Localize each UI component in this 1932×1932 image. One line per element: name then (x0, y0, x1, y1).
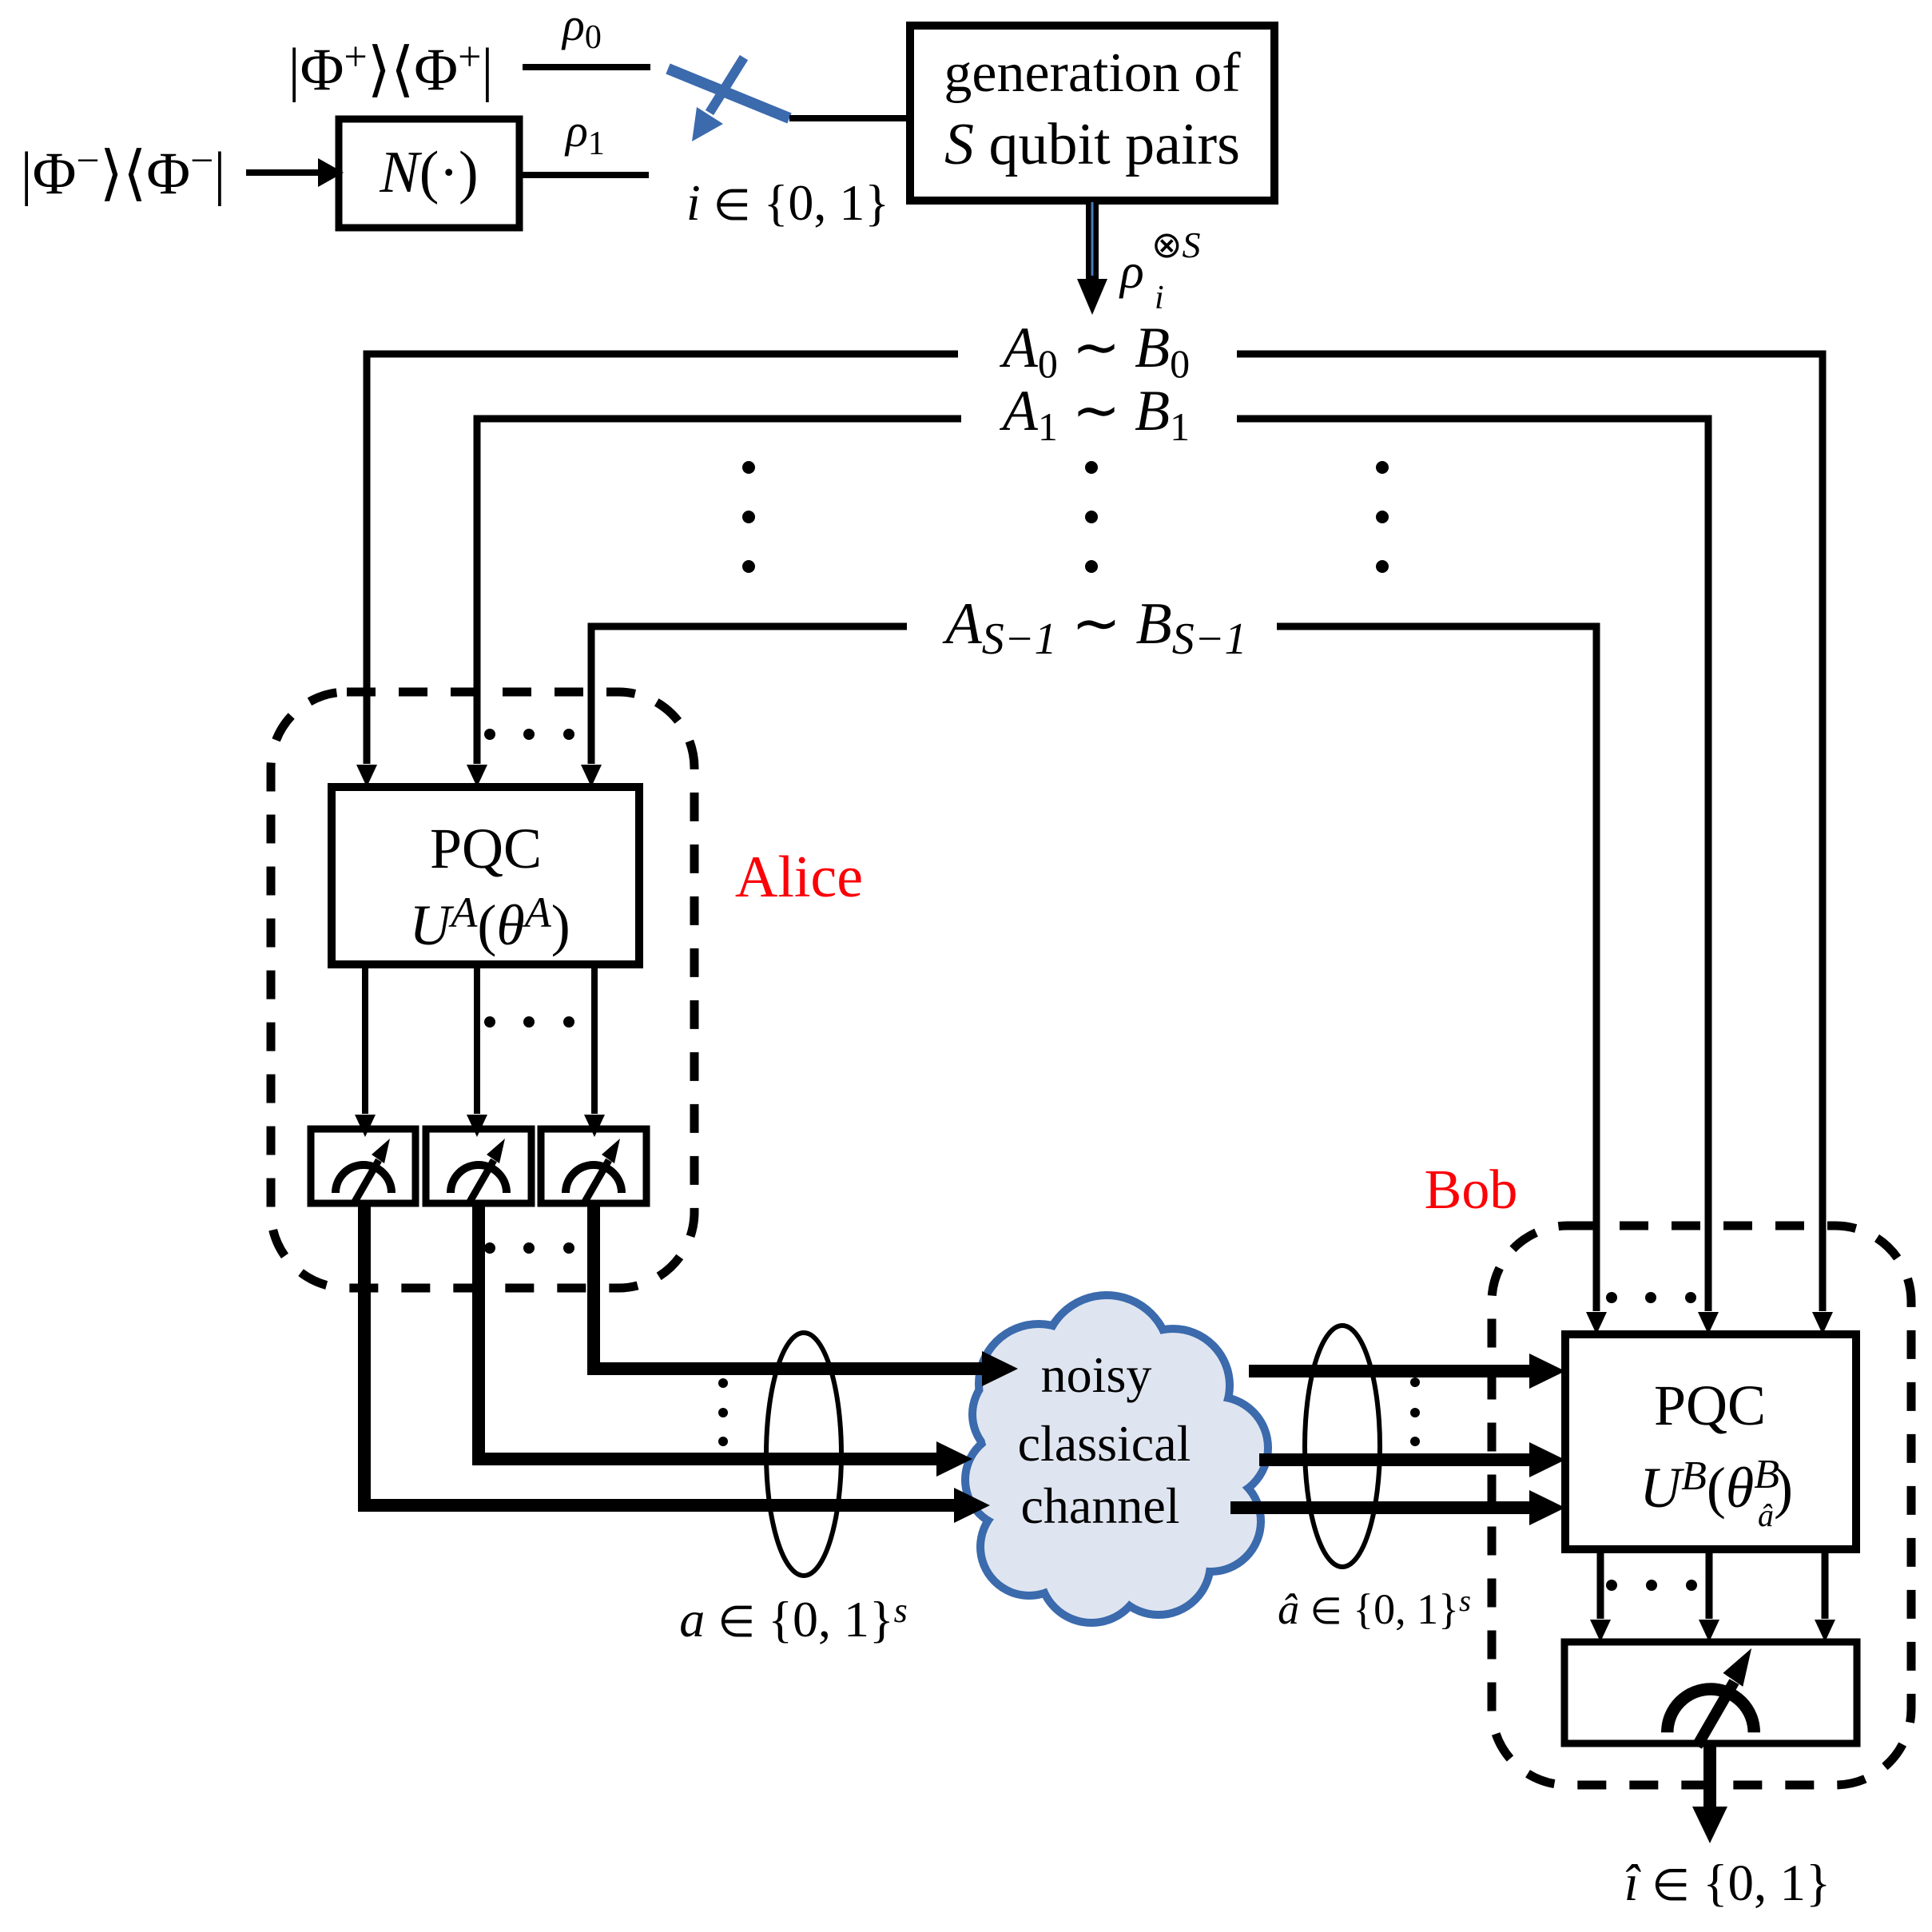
wire A0 right segment (1237, 354, 1823, 1311)
wire AS-1 right segment (1277, 626, 1596, 1311)
node dots between Bob PQC outputs (1606, 1580, 1697, 1591)
wire thick meter2 to cloud (479, 1203, 939, 1459)
wire Bob PQC output 3 (1822, 1549, 1829, 1619)
node dots above Alice PQC (484, 729, 574, 740)
box Bob dashed region (1492, 1226, 1911, 1785)
wire thick cloud to Bob PQC top (1249, 1365, 1532, 1377)
svg-text:noisy: noisy (1041, 1346, 1152, 1403)
node a in {0,1}^s label (679, 1591, 908, 1648)
wire thick output i-hat (1703, 1743, 1716, 1807)
svg-text:a ∈ {0, 1}s: a ∈ {0, 1}s (679, 1591, 908, 1648)
svg-text:i ∈ {0, 1}: i ∈ {0, 1} (686, 174, 889, 231)
svg-text:A1 ∼ B1: A1 ∼ B1 (1000, 379, 1190, 449)
node dots between PQC A outputs (484, 1016, 574, 1028)
wire rho0 (523, 64, 650, 70)
svg-text:S qubit pairs: S qubit pairs (944, 112, 1240, 177)
svg-text:â ∈ {0, 1}s: â ∈ {0, 1}s (1278, 1584, 1471, 1633)
wire AS-1 left segment (591, 626, 907, 764)
node rho0 label (561, 0, 602, 56)
wire A1 left segment (477, 419, 961, 764)
svg-text:PQC: PQC (1654, 1373, 1766, 1437)
node vertical dots column right (1376, 461, 1389, 573)
node Alice label (735, 845, 863, 910)
box Bob PQC U^B (1565, 1334, 1856, 1549)
svg-text:Alice: Alice (735, 845, 863, 910)
node Bob label (1425, 1159, 1518, 1221)
node rho_i^tensorS label (1119, 225, 1201, 316)
node vertical dots left of ellipse a (718, 1378, 728, 1446)
box N channel U1 (339, 119, 519, 228)
box meter 2 (426, 1129, 531, 1203)
svg-text:channel: channel (1021, 1477, 1180, 1534)
box Alice PQC U^A (332, 787, 639, 964)
wire thick cloud to Bob PQC bottom (1230, 1501, 1532, 1514)
wire thick cloud to Bob PQC middle (1259, 1453, 1532, 1466)
svg-text:Bob: Bob (1425, 1159, 1518, 1221)
wire input arrow into N box (246, 169, 318, 176)
svg-text:î ∈ {0, 1}: î ∈ {0, 1} (1624, 1854, 1831, 1912)
box meter 1 (311, 1129, 415, 1203)
node ket Phi- label (21, 138, 226, 207)
wire Bob PQC output 2 (1706, 1549, 1713, 1619)
node noisy classical channel cloud (969, 1299, 1264, 1619)
svg-text:A0 ∼ B0: A0 ∼ B0 (1000, 316, 1190, 386)
node rho1 label (564, 105, 605, 162)
node ket Phi+ label (288, 34, 494, 103)
svg-text:N(·): N(·) (379, 140, 478, 205)
wire Bob PQC output 1 (1597, 1549, 1604, 1619)
svg-text:generation of: generation of (944, 42, 1241, 104)
wire PQC A output 1 (362, 964, 368, 1114)
node grouping ellipse a-hat (1305, 1326, 1380, 1567)
wire thick meter1 to cloud (364, 1203, 956, 1505)
wire PQC A output 2 (474, 964, 480, 1114)
box Bob measurement (1564, 1642, 1857, 1743)
node grouping ellipse a (766, 1333, 841, 1576)
node i in {0,1} label (686, 174, 889, 231)
switch selector blue lever (668, 69, 789, 118)
node a-hat in {0,1}^s label (1278, 1584, 1471, 1633)
svg-text:⊗S: ⊗S (1151, 225, 1201, 265)
svg-text:PQC: PQC (430, 817, 542, 881)
wire switch to generation box (789, 115, 910, 121)
node dots above Bob PQC (1606, 1292, 1696, 1303)
wire A0 left segment (367, 354, 958, 764)
wire thick meter3 to cloud (594, 1203, 984, 1369)
svg-text:classical: classical (1018, 1415, 1191, 1472)
node A1 ~ B1 label (1000, 379, 1190, 449)
node AS-1 ~ BS-1 label (941, 591, 1246, 664)
node vertical dots column center (1085, 461, 1098, 573)
wire thick arrow rho_i^S down from generation box (1086, 201, 1099, 281)
svg-text:i: i (1155, 280, 1164, 316)
node i-hat in {0,1} label (1624, 1854, 1831, 1912)
box meter 3 (541, 1129, 646, 1203)
box generation of S qubit pairs (910, 26, 1274, 201)
wire rho1 (522, 172, 649, 178)
node vertical dots right of ellipse a-hat (1410, 1377, 1420, 1446)
node dots below meters (484, 1242, 574, 1254)
wire A1 right segment (1237, 419, 1708, 1311)
switch blue arrow (710, 58, 744, 113)
box Alice dashed region (271, 692, 694, 1288)
node A0 ~ B0 label (1000, 316, 1190, 386)
svg-text:ρ: ρ (1119, 244, 1144, 299)
node vertical dots column left (742, 461, 755, 573)
wire PQC A output 3 (591, 964, 598, 1114)
